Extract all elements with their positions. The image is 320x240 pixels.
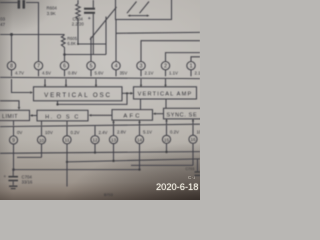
IC top edge thick bus [0,77,200,78]
svg-text:14: 14 [137,137,143,142]
junction R604 [77,43,79,45]
junction pin15 bus [165,151,167,153]
svg-text:0V: 0V [17,130,22,135]
svg-text:1: 1 [190,64,193,70]
pin 7 [34,61,42,69]
svg-text:VERTICAL OSC: VERTICAL OSC [44,92,112,99]
block LIMIT [0,110,30,120]
capacitor C703 right edge [186,167,201,176]
wire pin14 down [139,144,141,170]
wire long to right edge [116,31,200,34]
junction below R605 [63,53,66,56]
svg-text:10V: 10V [45,130,53,135]
junction pin12 bus [94,151,96,153]
svg-text:15: 15 [164,137,170,142]
wire pin10 down [41,144,43,157]
wire AMP to SYNC [165,99,167,108]
arrow AFC to H OSC [89,114,113,116]
svg-text:11: 11 [65,138,70,143]
svg-text:+: + [4,174,7,179]
svg-text:16: 16 [190,137,196,142]
svg-text:4.5V: 4.5V [42,71,51,76]
svg-text:2.8V: 2.8V [117,130,126,135]
pin 5 [87,61,95,69]
svg-text:03: 03 [0,16,6,21]
wire node A to pin 8 [11,35,13,62]
svg-text:2.4V: 2.4V [99,130,108,135]
svg-text:2: 2 [164,64,167,70]
period double arrow [128,15,150,17]
pin 9 [9,136,17,144]
svg-text:VERTICAL AMP: VERTICAL AMP [138,92,193,98]
bus L6 [131,164,193,166]
tiny camera overlay glyphs [188,175,195,180]
ground below C704 [9,181,17,189]
pin 14 [135,135,143,143]
wire node B horizontal to x106 [65,54,107,56]
waveform box W1 [116,0,172,20]
svg-text:5: 5 [90,64,93,70]
wire right edge to pin 2 [166,53,201,62]
wire bus node A horizontal [0,34,65,36]
junction pin14 bus [138,168,140,170]
wire pin6 drop [64,55,66,62]
wire pin9 down [13,144,15,170]
wire AMP to AFC [140,99,142,110]
block AFC [112,110,153,121]
pin 8 [7,61,15,69]
wire pin16 down [192,143,194,165]
arrow H OSC to LIMIT [30,114,37,116]
block VERTICAL AMP [134,87,197,99]
wire C603 to pin7 column [26,3,39,62]
junction node A [10,33,13,36]
wire pin13 down [113,144,115,161]
svg-text:13: 13 [111,138,117,143]
stubs bus to bottom pins [14,125,194,136]
svg-text:0.2V: 0.2V [71,130,80,135]
svg-text:H. O S C: H. O S C [45,114,80,120]
svg-text:35V: 35V [120,71,128,76]
arrow SYNC to AFC [153,113,164,115]
wire pin8 branch into OSC [12,79,34,94]
wire pin5 riser [90,37,92,62]
wire right edge to pin 1 [191,57,200,62]
waveform trace 1 [127,2,137,14]
svg-text:LIMIT: LIMIT [2,114,18,120]
pin 4 [112,61,120,69]
svg-text:AFC: AFC [123,114,141,120]
pin 15 [162,135,170,143]
svg-text:9: 9 [12,138,15,144]
diagonal pointer wire [90,7,117,40]
wire from left edge into LIMIT [0,101,20,110]
wire pin12 down [94,144,96,153]
capacitor C603 [18,0,25,9]
junction pin13 bus [112,160,114,162]
stubs into VERTICAL OSC [44,79,97,87]
svg-text:4: 4 [115,64,118,70]
bus L4 [14,169,140,171]
svg-text:5.1V: 5.1V [143,130,152,135]
wire right edge to pin 3 [141,41,200,62]
block SYNC SEP [164,108,206,119]
svg-text:10: 10 [197,129,201,134]
pin 16 [189,135,197,143]
IC bottom edge thick bus [0,124,200,126]
svg-text:3: 3 [140,64,143,70]
svg-text:6.8K: 6.8K [67,41,76,46]
block VERTICAL OSC [34,87,123,101]
pin 3 [137,61,145,69]
junction below OSC [56,103,58,105]
svg-text:6: 6 [63,64,66,70]
pin 1 [187,61,195,69]
pin 6 [60,61,68,69]
svg-text:2.1V: 2.1V [195,71,201,76]
arrow OSC to AMP [122,92,133,95]
svg-text:2.2/20: 2.2/20 [72,22,85,27]
pin 13 [109,136,117,144]
resistor R605 [61,35,65,55]
svg-text:+: + [88,16,91,22]
junction pin11 bus [66,161,68,163]
svg-text:12: 12 [92,138,98,143]
wire OSC bottom feedback [58,93,128,104]
svg-text:3.9K: 3.9K [47,11,56,16]
svg-text:B703: B703 [104,193,113,197]
waveform trace 2 [140,2,150,14]
svg-text:0.8V: 0.8V [68,71,77,76]
bus L2 [17,156,42,158]
svg-text:10: 10 [39,138,45,143]
wire box to pin 4 [115,20,117,62]
wire C604 top stub [92,0,94,8]
resistor R604 [76,0,80,19]
svg-text:8: 8 [10,64,13,70]
wire R604 down and right [78,19,106,44]
capacitor C604 [84,8,95,22]
svg-text:1.1V: 1.1V [169,71,178,76]
pin 10 [37,136,45,144]
pin 12 [91,136,99,144]
capacitor C704 [4,170,19,182]
pin 2 [161,61,169,69]
svg-text:47: 47 [0,22,6,27]
svg-text:C703: C703 [186,167,195,171]
stubs boxes to bottom bus [14,119,194,126]
svg-text:7: 7 [37,64,40,70]
wire pin11 down [66,144,68,187]
svg-text:33/16: 33/16 [22,180,33,185]
svg-text:0.2V: 0.2V [170,130,179,135]
svg-text:5.6V: 5.6V [95,71,104,76]
bus L1 [0,152,200,154]
junction on OSC-AMP wire [126,92,128,94]
block H OSC [37,110,88,121]
wire right edge drop [197,159,199,171]
stubs into VERTICAL AMP [140,79,167,87]
bus L3 [67,159,200,162]
svg-text:2.1V: 2.1V [145,71,154,76]
svg-text:4.7V: 4.7V [15,71,24,76]
pin stubs top row [12,70,192,76]
wire vertical x106 [105,17,107,55]
wire pin15 down [166,144,168,152]
camera timestamp [156,182,200,194]
up arrows into SYNC bottom [112,119,194,123]
wire C604 bottom stub [92,14,94,55]
svg-text:SYNC. SE: SYNC. SE [167,112,198,118]
pin 11 [63,136,71,144]
junction pin9 bus [12,168,15,171]
wire to C603 from left edge [0,2,18,4]
